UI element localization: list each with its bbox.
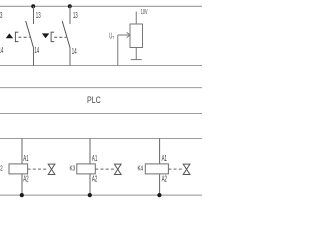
svg-text:PLC: PLC bbox=[87, 95, 101, 105]
svg-text:A2: A2 bbox=[92, 175, 97, 184]
svg-text:A2: A2 bbox=[23, 175, 28, 184]
svg-text:A1: A1 bbox=[162, 154, 167, 163]
svg-text:13: 13 bbox=[0, 10, 3, 20]
svg-text:K2: K2 bbox=[0, 166, 3, 173]
svg-text:14: 14 bbox=[0, 45, 4, 55]
svg-text:A1: A1 bbox=[23, 154, 28, 163]
svg-text:T: T bbox=[112, 35, 114, 40]
svg-text:10V: 10V bbox=[141, 9, 148, 16]
svg-text:K4: K4 bbox=[138, 166, 144, 173]
svg-text:13: 13 bbox=[73, 10, 78, 20]
svg-text:14: 14 bbox=[34, 45, 39, 55]
svg-text:A2: A2 bbox=[162, 175, 167, 184]
svg-text:K3: K3 bbox=[70, 166, 76, 173]
svg-text:14: 14 bbox=[72, 46, 77, 56]
svg-text:13: 13 bbox=[36, 10, 41, 20]
svg-text:A1: A1 bbox=[92, 154, 97, 163]
